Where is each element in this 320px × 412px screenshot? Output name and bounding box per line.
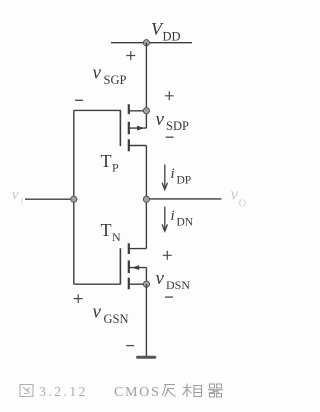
label vDSN [156,268,191,292]
caption glyph 反 [162,385,176,397]
label vo (output) [231,185,247,210]
node PMOS source-bulk junction dot [143,108,149,114]
node input junction dot [71,196,77,202]
svg-text:SDP: SDP [166,119,189,133]
wire VDD to PMOS source [145,43,147,111]
svg-text:I: I [21,197,24,206]
wire NMOS gate lead [74,283,121,285]
svg-text:T: T [101,220,112,240]
node NMOS source-bulk junction dot [143,281,149,287]
plus sign of vDSN (drain side) [163,251,172,260]
caption glyph 器 [208,384,223,397]
svg-text:DSN: DSN [166,278,190,292]
label VDD [151,19,181,44]
svg-text:DN: DN [177,216,194,228]
caption: 图 3.2.12 CMOS 反相器 [39,385,160,400]
minus sign of vDSN (source side) [165,296,173,298]
label TP [101,151,120,175]
wire PMOS drain to output node to NMOS drain [145,146,147,249]
transistor TN (NMOS) [120,243,146,289]
svg-text:CMOS: CMOS [114,385,160,400]
svg-text:O: O [239,199,246,210]
svg-text:DP: DP [177,175,192,187]
svg-text:v: v [12,187,19,203]
svg-text:v: v [93,302,102,323]
minus sign of vGSN (source side) [126,345,134,347]
svg-text:v: v [93,63,102,84]
label vSGP [93,63,127,87]
minus sign of vSDP (drain side) [166,136,174,138]
caption glyph 相 [183,384,202,398]
wire NMOS source to ground [145,284,147,356]
svg-text:T: T [101,151,112,171]
svg-text:SGP: SGP [104,73,127,87]
minus sign of vSGP (gate side) [75,99,83,101]
wire left input column [73,110,75,284]
VDD power rail [111,42,192,44]
label iDP [171,166,192,187]
current arrow iDN [162,207,167,232]
svg-text:i: i [171,166,175,182]
label iDN [171,208,194,229]
svg-text:v: v [156,268,165,289]
label vSDP [156,109,189,133]
svg-text:v: v [231,185,239,204]
plus sign of vSDP (source side) [165,91,174,100]
caption glyph 图 [20,385,33,397]
wire PMOS gate lead [74,109,121,111]
svg-text:N: N [112,230,121,244]
svg-text:P: P [112,161,119,175]
node output junction dot [143,196,149,202]
current arrow iDP [162,165,167,190]
wire output lead [146,198,221,200]
ground [138,356,155,359]
label vi (input) [12,187,24,205]
svg-text:DD: DD [163,30,181,44]
svg-text:GSN: GSN [104,312,129,326]
svg-text:i: i [171,208,175,224]
plus sign of vSGP (top) [126,51,135,60]
node VDD junction dot [143,40,149,46]
svg-text:3.2.12: 3.2.12 [39,385,88,400]
label vGSN [93,302,129,326]
wire input lead [25,198,74,200]
transistor TP (PMOS) [120,104,146,151]
plus sign of vGSN (gate side) [74,294,83,303]
label TN [101,220,122,244]
svg-text:v: v [156,109,165,130]
